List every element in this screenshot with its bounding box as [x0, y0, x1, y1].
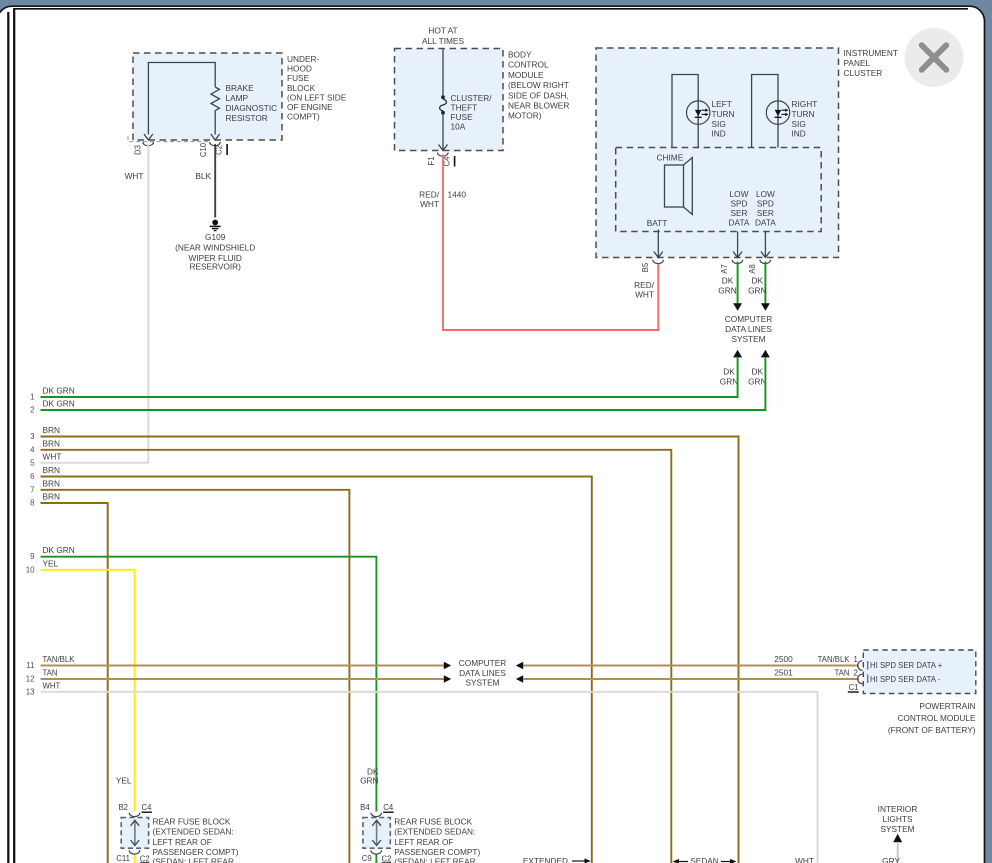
svg-text:3: 3	[30, 432, 35, 441]
svg-text:C1: C1	[849, 683, 859, 692]
extended label arrow	[523, 856, 591, 863]
wire 11 TAN/BLK	[26, 655, 451, 670]
svg-text:DK GRN: DK GRN	[43, 399, 75, 409]
svg-text:GRN: GRN	[718, 286, 736, 296]
body control module box	[395, 49, 504, 151]
svg-text:COMPT): COMPT)	[287, 112, 320, 122]
connector A8	[748, 260, 771, 274]
svg-text:INSTRUMENT: INSTRUMENT	[844, 48, 898, 58]
wire TAN 2501 to PCM	[523, 668, 863, 684]
svg-text:12: 12	[26, 675, 35, 684]
svg-text:BODY: BODY	[508, 50, 532, 60]
svg-text:RESERVOIR): RESERVOIR)	[189, 261, 241, 271]
svg-text:RIGHT: RIGHT	[792, 99, 818, 109]
svg-text:RESISTOR: RESISTOR	[226, 113, 268, 123]
low speed serial data pins	[729, 189, 777, 258]
computer data lines system node top	[725, 314, 773, 344]
svg-text:SIDE OF DASH,: SIDE OF DASH,	[508, 90, 569, 100]
svg-text:CLUSTER: CLUSTER	[844, 68, 883, 78]
svg-text:BRN: BRN	[43, 492, 61, 502]
svg-text:TAN/BLK: TAN/BLK	[818, 655, 851, 664]
svg-text:BRN: BRN	[43, 465, 61, 475]
body control module label	[508, 50, 569, 121]
svg-text:C9: C9	[362, 854, 372, 863]
rear fuse block 1 box	[121, 818, 148, 849]
svg-text:BRAKE: BRAKE	[226, 83, 255, 93]
svg-text:YEL: YEL	[116, 776, 132, 786]
svg-text:SER: SER	[730, 208, 747, 218]
svg-text:DATA: DATA	[729, 218, 750, 228]
wire WHT from D3	[125, 144, 149, 463]
svg-text:(EXTENDED SEDAN:: (EXTENDED SEDAN:	[394, 827, 475, 837]
diagram frame left double line	[7, 12, 9, 863]
connector C2 boundary dashed line	[128, 136, 210, 141]
brake lamp diagnostic resistor R	[144, 63, 220, 141]
svg-text:SYSTEM: SYSTEM	[465, 677, 499, 687]
svg-text:HOT AT: HOT AT	[428, 26, 457, 36]
svg-text:HOOD: HOOD	[287, 64, 312, 74]
svg-text:IND: IND	[712, 129, 726, 139]
svg-text:DK GRN: DK GRN	[43, 386, 75, 396]
svg-text:RED/: RED/	[419, 190, 440, 200]
svg-text:D3: D3	[134, 145, 143, 155]
chime speaker symbol	[665, 158, 693, 215]
svg-text:DK: DK	[723, 366, 735, 376]
svg-text:EXTENDED: EXTENDED	[523, 856, 568, 863]
svg-text:B2: B2	[118, 803, 128, 812]
connector D3	[134, 142, 154, 155]
svg-text:DK: DK	[752, 276, 764, 286]
svg-text:(SEDAN: LEFT REAR: (SEDAN: LEFT REAR	[153, 857, 234, 863]
svg-text:WHT: WHT	[125, 171, 144, 181]
svg-text:DIAGNOSTIC: DIAGNOSTIC	[226, 103, 278, 113]
svg-text:LOW: LOW	[730, 189, 749, 199]
rear fuse block 1 connector B2/C4	[118, 803, 152, 817]
svg-text:DATA LINES: DATA LINES	[459, 668, 506, 678]
svg-text:GRN: GRN	[748, 376, 766, 386]
svg-text:G109: G109	[205, 232, 226, 242]
svg-text:SPD: SPD	[757, 199, 774, 209]
svg-text:9: 9	[30, 552, 35, 561]
svg-text:IND: IND	[792, 129, 806, 139]
svg-text:BRN: BRN	[43, 438, 61, 448]
svg-text:FUSE: FUSE	[287, 73, 310, 83]
svg-text:SYSTEM: SYSTEM	[731, 334, 765, 344]
connector C10 / C2	[199, 142, 228, 157]
diagram frame top line	[13, 8, 968, 10]
rear fuse block 1 label	[153, 817, 239, 863]
right turn signal label	[792, 99, 818, 139]
svg-text:5: 5	[30, 458, 35, 467]
BATT pin arrow	[647, 218, 668, 258]
wire 8 BRN	[30, 492, 108, 863]
wire 1 DK GRN	[30, 358, 737, 402]
svg-text:2500: 2500	[774, 654, 793, 664]
svg-text:2: 2	[30, 406, 34, 415]
svg-text:4: 4	[30, 445, 35, 454]
svg-text:(EXTENDED SEDAN:: (EXTENDED SEDAN:	[153, 827, 234, 837]
connector C1	[848, 683, 859, 693]
svg-text:COMPUTER: COMPUTER	[725, 314, 772, 324]
svg-text:UNDER-: UNDER-	[287, 54, 320, 64]
wire 5 WHT	[30, 451, 148, 467]
svg-text:BLOCK: BLOCK	[287, 83, 316, 93]
rear fuse block 2 connector C9/C2	[362, 850, 392, 863]
svg-text:CONTROL MODULE: CONTROL MODULE	[897, 713, 976, 723]
svg-text:BATT: BATT	[647, 218, 668, 228]
powertrain control module box	[863, 650, 976, 694]
svg-text:LEFT REAR OF: LEFT REAR OF	[153, 837, 212, 847]
svg-text:PANEL: PANEL	[844, 58, 871, 68]
svg-text:C4: C4	[142, 803, 153, 812]
svg-text:GRN: GRN	[748, 286, 766, 296]
wire DK GRN from A7	[718, 262, 742, 311]
instrument panel cluster box	[596, 48, 839, 258]
close button	[905, 28, 964, 87]
svg-text:PASSENGER COMPT): PASSENGER COMPT)	[153, 847, 239, 857]
connector B5	[641, 260, 663, 272]
svg-text:SPD: SPD	[730, 199, 747, 209]
wire 10 YEL	[26, 558, 135, 863]
chime label	[657, 152, 684, 162]
svg-text:C2: C2	[140, 855, 150, 863]
svg-text:11: 11	[26, 661, 34, 670]
svg-text:LIGHTS: LIGHTS	[883, 814, 913, 824]
svg-text:THEFT: THEFT	[451, 103, 478, 113]
interior lights system node	[878, 804, 918, 863]
svg-text:HI SPD SER DATA +: HI SPD SER DATA +	[870, 661, 943, 670]
svg-text:INTERIOR: INTERIOR	[878, 804, 918, 814]
svg-text:ALL TIMES: ALL TIMES	[422, 36, 464, 46]
wire 13 WHT	[26, 681, 818, 863]
svg-text:TURN: TURN	[712, 109, 735, 119]
left turn signal indicator	[672, 75, 710, 148]
svg-text:DK GRN: DK GRN	[43, 545, 75, 555]
rear fuse block 2 box	[363, 818, 390, 849]
svg-text:WHT: WHT	[635, 290, 654, 300]
rear fuse block 1 connector C11/C2	[116, 850, 150, 863]
svg-text:GRY: GRY	[882, 856, 900, 863]
svg-text:(FRONT OF BATTERY): (FRONT OF BATTERY)	[888, 725, 976, 735]
svg-text:(NEAR WINDSHIELD: (NEAR WINDSHIELD	[175, 243, 255, 253]
svg-text:SYSTEM: SYSTEM	[880, 824, 914, 834]
fuse cluster/theft 10A	[439, 49, 448, 151]
svg-text:CLUSTER/: CLUSTER/	[451, 93, 493, 103]
svg-text:MODULE: MODULE	[508, 70, 544, 80]
svg-text:TAN: TAN	[834, 669, 849, 678]
brake lamp diagnostic resistor label	[226, 83, 278, 123]
svg-text:F1: F1	[427, 156, 436, 165]
svg-text:FUSE: FUSE	[451, 112, 474, 122]
svg-text:BLK: BLK	[195, 171, 211, 181]
svg-text:A7: A7	[720, 264, 729, 274]
svg-text:C11: C11	[116, 854, 130, 863]
svg-text:TAN/BLK: TAN/BLK	[43, 655, 76, 664]
svg-text:TURN: TURN	[792, 109, 815, 119]
svg-text:C2: C2	[382, 855, 392, 863]
svg-text:DATA LINES: DATA LINES	[725, 324, 772, 334]
wire 6 BRN	[30, 465, 592, 863]
svg-text:LAMP: LAMP	[226, 93, 249, 103]
svg-text:1440: 1440	[448, 190, 467, 200]
svg-text:(BELOW RIGHT: (BELOW RIGHT	[508, 80, 569, 90]
svg-text:C4: C4	[383, 803, 394, 812]
wire 2 DK GRN	[30, 358, 765, 415]
svg-text:2: 2	[854, 669, 858, 678]
svg-text:A8: A8	[748, 264, 757, 274]
svg-text:B4: B4	[360, 803, 370, 812]
right turn signal indicator	[752, 75, 790, 148]
svg-text:YEL: YEL	[43, 558, 59, 568]
svg-text:BRN: BRN	[43, 425, 61, 435]
svg-text:LOW: LOW	[756, 189, 775, 199]
svg-text:REAR FUSE BLOCK: REAR FUSE BLOCK	[394, 817, 472, 827]
svg-text:13: 13	[26, 687, 35, 696]
sedan label arrows	[673, 856, 737, 863]
svg-text:10: 10	[26, 565, 35, 574]
svg-text:CHIME: CHIME	[657, 152, 684, 162]
svg-text:(SEDAN: LEFT REAR: (SEDAN: LEFT REAR	[394, 857, 475, 863]
svg-text:NEAR BLOWER: NEAR BLOWER	[508, 101, 569, 111]
svg-text:TAN: TAN	[43, 669, 58, 678]
svg-text:DK: DK	[722, 276, 734, 286]
svg-text:7: 7	[30, 485, 34, 494]
svg-text:DK: DK	[752, 366, 764, 376]
svg-text:WHT: WHT	[43, 451, 62, 461]
svg-text:DATA: DATA	[755, 218, 776, 228]
svg-text:MOTOR): MOTOR)	[508, 111, 542, 121]
svg-text:REAR FUSE BLOCK: REAR FUSE BLOCK	[153, 817, 231, 827]
svg-text:8: 8	[30, 499, 35, 508]
connector A7	[720, 260, 743, 274]
chime module box	[616, 148, 822, 232]
instrument panel cluster label	[844, 48, 898, 78]
wire DK GRN from A8	[748, 262, 770, 311]
svg-text:COMPUTER: COMPUTER	[459, 658, 506, 668]
svg-text:1: 1	[30, 393, 34, 402]
fuse label	[451, 93, 493, 132]
svg-text:1: 1	[854, 655, 858, 664]
svg-text:B5: B5	[641, 262, 650, 272]
wire 12 TAN	[26, 669, 451, 684]
underhood fuse block label	[287, 54, 347, 122]
wire 3 BRN	[30, 425, 738, 863]
wire TAN/BLK 2500 to PCM	[523, 654, 863, 670]
ground G109 label	[175, 232, 255, 271]
svg-text:10A: 10A	[451, 122, 466, 132]
powertrain control module label	[888, 701, 976, 735]
svg-text:HI SPD SER DATA -: HI SPD SER DATA -	[870, 675, 941, 684]
svg-text:GRN: GRN	[360, 776, 378, 786]
wire BLK to ground	[195, 144, 215, 218]
rear fuse block 2 label	[394, 817, 480, 863]
svg-text:(ON LEFT SIDE: (ON LEFT SIDE	[287, 92, 347, 102]
svg-text:POWERTRAIN: POWERTRAIN	[919, 701, 975, 711]
svg-text:SIG: SIG	[792, 119, 806, 129]
svg-text:WHT: WHT	[43, 681, 61, 690]
rear fuse block 2 connector B4/C4	[360, 803, 394, 817]
wire 7 BRN	[30, 478, 349, 863]
hot at all times label	[422, 26, 464, 46]
svg-text:SEDAN: SEDAN	[690, 856, 719, 863]
svg-text:GRN: GRN	[720, 376, 738, 386]
svg-text:RED/: RED/	[634, 280, 655, 290]
svg-text:6: 6	[30, 472, 35, 481]
svg-text:BRN: BRN	[43, 478, 61, 488]
svg-text:2501: 2501	[774, 668, 793, 678]
svg-text:WHT: WHT	[795, 856, 814, 863]
svg-text:CONTROL: CONTROL	[508, 60, 549, 70]
computer data lines system node middle	[459, 658, 523, 687]
svg-text:SER: SER	[757, 208, 774, 218]
left turn signal label	[712, 99, 735, 139]
svg-text:LEFT REAR OF: LEFT REAR OF	[394, 837, 453, 847]
ground G109	[210, 220, 221, 231]
svg-text:PASSENGER COMPT): PASSENGER COMPT)	[394, 847, 480, 857]
svg-text:SIG: SIG	[712, 119, 726, 129]
svg-text:LEFT: LEFT	[712, 99, 732, 109]
svg-text:WHT: WHT	[420, 199, 439, 209]
svg-text:C10: C10	[199, 142, 208, 157]
svg-text:OF ENGINE: OF ENGINE	[287, 102, 333, 112]
up arrows with DK GRN labels into node	[720, 350, 770, 387]
wire 4 BRN	[30, 438, 671, 863]
wire RED/WHT circuit 1440	[419, 155, 658, 331]
wire 9 DK GRN	[30, 545, 379, 863]
underhood fuse block box	[133, 53, 282, 140]
connector F1 / C4	[427, 153, 455, 167]
